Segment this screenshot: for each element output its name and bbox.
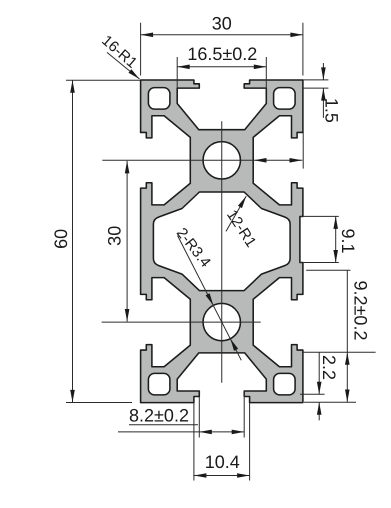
thin lines: extension lines, centerlines, dimension lines [66, 23, 376, 481]
center bore hole 1 [203, 142, 240, 179]
ext lines top 30 [141, 23, 303, 76]
arrowhead 9.2 top [345, 352, 350, 365]
arrowhead 9.1 bottom [333, 250, 338, 263]
arrowhead 10.4 left [194, 473, 207, 478]
dim line 2.2 [318, 352, 320, 420]
arrowhead 1.5 lower [321, 88, 326, 101]
svg-text:2-R3.4: 2-R3.4 [173, 225, 214, 271]
leader 12-R1 [226, 196, 246, 231]
dim line 8.2 + text underline [118, 425, 244, 432]
svg-text:60: 60 [51, 229, 71, 249]
hole 1 centerline horizontal [102, 159, 302, 161]
corner screw hole bottom-right [274, 373, 296, 395]
svg-text:30: 30 [212, 13, 232, 33]
dim line 30 top [141, 34, 303, 36]
arrowhead slot-depth dim left [254, 158, 267, 163]
arrowhead 10.4 right [237, 473, 250, 478]
svg-text:8.2±0.2: 8.2±0.2 [129, 406, 189, 426]
ext lines 8.2 [199, 391, 244, 438]
svg-text:16.5±0.2: 16.5±0.2 [187, 44, 257, 64]
arrowhead 16.5 left [177, 65, 190, 70]
arrowhead 9.1 top [333, 216, 338, 229]
dim line 1.5 [322, 63, 324, 118]
corner screw hole top-left [148, 88, 170, 110]
svg-text:16-R1: 16-R1 [98, 32, 140, 72]
leader 2-R3.4 [178, 236, 242, 361]
svg-text:2.2: 2.2 [319, 355, 339, 380]
dim line 10.4 [194, 475, 250, 477]
arrowhead 2.2 upper [317, 382, 322, 395]
arrowhead 12-R1 leader [238, 195, 248, 208]
arrowhead 60 bottom [70, 390, 75, 403]
leader 16-R1 [107, 52, 140, 79]
center bore hole 2 [203, 303, 240, 340]
dim line 9.2 [346, 270, 348, 402]
arrowhead 2-R3.4 leader upper [206, 293, 216, 306]
ext line 2.2 [300, 393, 325, 395]
ext lines 9.2 [302, 270, 376, 402]
arrowhead 9.2 bottom [345, 390, 350, 403]
arrowheads [70, 33, 349, 478]
arrowhead 30-top right [290, 33, 303, 38]
dim line 16.5 [177, 66, 266, 68]
arrowhead slot-depth dim right [290, 158, 303, 163]
arrowhead 2.2 lower [317, 402, 322, 415]
arrowhead 16.5 right [254, 65, 267, 70]
dimension texts [51, 13, 370, 472]
arrowhead 30-left bottom [125, 309, 130, 322]
ext lines 16.5 [177, 57, 266, 90]
arrowhead 1.5 upper [321, 67, 326, 80]
corner screw hole top-right [274, 88, 296, 110]
ext lines 9.1 [301, 216, 339, 262]
hole 2 centerline horizontal [102, 321, 261, 323]
arrowhead 30-left top [125, 161, 130, 174]
ext lines 10.4 [194, 403, 250, 481]
arrowhead 8.2 right [232, 430, 245, 435]
dim line 9.1 [335, 216, 337, 262]
corner screw hole bottom-left [148, 373, 170, 395]
svg-text:12-R1: 12-R1 [223, 207, 260, 251]
svg-text:9.1: 9.1 [338, 228, 358, 253]
ext line right of hole1 dim [302, 132, 304, 168]
ext lines 60 left [66, 80, 140, 402]
svg-text:10.4: 10.4 [205, 452, 240, 472]
dim line 60 [72, 80, 74, 402]
arrowhead 2-R3.4 leader lower [228, 338, 238, 351]
svg-text:30: 30 [105, 226, 125, 246]
dim line 30 left [126, 161, 128, 322]
svg-text:1.5: 1.5 [321, 98, 341, 123]
ext lines 1.5 [304, 80, 329, 88]
svg-text:9.2±0.2: 9.2±0.2 [351, 281, 371, 341]
arrowhead 60 top [70, 80, 75, 93]
arrowhead 8.2 left [199, 430, 212, 435]
arrowhead 30-top left [141, 33, 154, 38]
vertical centerline [221, 121, 223, 383]
arrowhead 16-R1 leader [128, 69, 141, 81]
aluminum extrusion profile 30x60 cross-section [141, 80, 303, 403]
